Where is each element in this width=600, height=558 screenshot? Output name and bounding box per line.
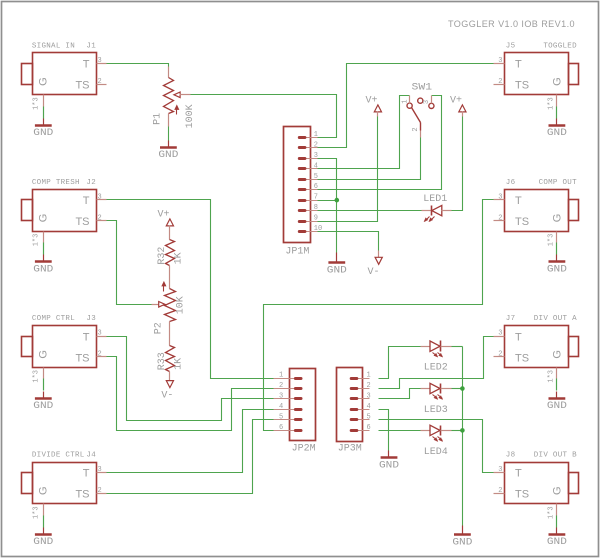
svg-text:GND: GND: [547, 127, 567, 139]
svg-text:G: G: [38, 350, 50, 359]
svg-text:R33: R33: [157, 352, 168, 370]
svg-text:5: 5: [314, 173, 318, 181]
svg-text:2: 2: [498, 78, 502, 86]
svg-text:G: G: [551, 77, 563, 86]
svg-text:3: 3: [498, 193, 502, 201]
svg-text:2: 2: [279, 382, 283, 390]
svg-text:TOGGLED: TOGGLED: [543, 43, 577, 51]
svg-text:G: G: [38, 486, 50, 495]
svg-text:1*3: 1*3: [548, 370, 556, 383]
svg-text:G: G: [38, 214, 50, 223]
svg-text:T: T: [83, 195, 90, 207]
svg-text:2: 2: [367, 382, 371, 390]
svg-text:3: 3: [367, 393, 371, 401]
svg-text:9: 9: [314, 215, 318, 223]
svg-text:TS: TS: [515, 352, 529, 364]
svg-text:1*3: 1*3: [548, 506, 556, 519]
svg-text:10K: 10K: [175, 296, 186, 314]
svg-text:J1: J1: [86, 43, 96, 51]
svg-text:1: 1: [367, 372, 371, 380]
svg-text:TS: TS: [515, 216, 529, 228]
svg-text:6: 6: [367, 424, 371, 432]
svg-text:T: T: [515, 59, 522, 71]
svg-text:1: 1: [401, 99, 409, 103]
svg-text:7: 7: [314, 194, 318, 202]
svg-text:GND: GND: [327, 264, 347, 276]
svg-text:J8: J8: [506, 452, 516, 460]
svg-text:JP2M: JP2M: [292, 444, 316, 455]
svg-text:GND: GND: [452, 537, 472, 549]
svg-text:LED1: LED1: [423, 194, 447, 205]
svg-text:TS: TS: [75, 352, 89, 364]
svg-text:3: 3: [423, 100, 431, 104]
svg-text:T: T: [515, 331, 522, 343]
svg-text:V+: V+: [450, 96, 462, 107]
svg-text:3: 3: [314, 152, 318, 160]
svg-text:1: 1: [314, 131, 318, 139]
svg-text:GND: GND: [547, 264, 567, 276]
svg-text:COMP OUT: COMP OUT: [539, 179, 578, 187]
svg-text:3: 3: [498, 466, 502, 474]
svg-text:TS: TS: [515, 489, 529, 501]
svg-text:J7: J7: [506, 315, 516, 323]
svg-text:2: 2: [98, 214, 102, 222]
svg-text:V+: V+: [365, 96, 377, 107]
svg-text:3: 3: [98, 193, 102, 201]
svg-text:100K: 100K: [185, 104, 196, 128]
svg-text:GND: GND: [33, 127, 53, 139]
svg-text:P2: P2: [153, 322, 164, 334]
svg-text:TS: TS: [75, 216, 89, 228]
svg-text:1*3: 1*3: [33, 234, 41, 247]
svg-text:P1: P1: [153, 113, 164, 125]
svg-text:G: G: [551, 486, 563, 495]
svg-text:3: 3: [498, 330, 502, 338]
svg-text:1: 1: [279, 372, 283, 380]
svg-text:LED3: LED3: [424, 405, 448, 416]
svg-text:DIVIDE CTRL: DIVIDE CTRL: [32, 452, 85, 460]
svg-text:TOGGLER V1.0 IOB REV1.0: TOGGLER V1.0 IOB REV1.0: [448, 19, 575, 29]
svg-text:T: T: [83, 59, 90, 71]
svg-text:2: 2: [98, 78, 102, 86]
svg-text:COMP TRESH: COMP TRESH: [32, 179, 80, 187]
svg-text:TS: TS: [75, 80, 89, 92]
svg-text:2: 2: [498, 214, 502, 222]
svg-text:TS: TS: [515, 80, 529, 92]
svg-text:1K: 1K: [174, 358, 185, 370]
svg-text:T: T: [83, 468, 90, 480]
svg-text:GND: GND: [158, 149, 178, 161]
svg-text:J6: J6: [506, 179, 516, 187]
svg-text:10: 10: [314, 225, 322, 233]
svg-text:5: 5: [279, 414, 283, 422]
svg-text:J2: J2: [86, 179, 96, 187]
svg-text:COMP CTRL: COMP CTRL: [32, 315, 75, 323]
svg-text:3: 3: [279, 393, 283, 401]
svg-text:1*3: 1*3: [548, 234, 556, 247]
svg-text:GND: GND: [33, 400, 53, 412]
svg-text:LED4: LED4: [424, 447, 448, 458]
svg-text:TS: TS: [75, 489, 89, 501]
svg-text:4: 4: [314, 162, 318, 170]
svg-text:GND: GND: [33, 264, 53, 276]
svg-text:2: 2: [498, 351, 502, 359]
svg-text:1K: 1K: [174, 252, 185, 264]
svg-text:G: G: [551, 350, 563, 359]
svg-text:2: 2: [314, 141, 318, 149]
svg-text:G: G: [551, 214, 563, 223]
svg-text:3: 3: [98, 330, 102, 338]
svg-text:V-: V-: [161, 390, 173, 401]
svg-text:2: 2: [98, 487, 102, 495]
svg-text:1*3: 1*3: [548, 97, 556, 110]
svg-text:1*3: 1*3: [33, 370, 41, 383]
svg-text:1*3: 1*3: [33, 506, 41, 519]
svg-text:8: 8: [314, 204, 318, 212]
svg-text:J3: J3: [86, 315, 96, 323]
svg-text:T: T: [515, 195, 522, 207]
svg-text:JP1M: JP1M: [285, 247, 309, 258]
svg-text:6: 6: [314, 183, 318, 191]
svg-text:3: 3: [498, 57, 502, 65]
svg-text:V-: V-: [367, 267, 379, 278]
svg-text:J5: J5: [506, 43, 516, 51]
svg-text:2: 2: [98, 351, 102, 359]
svg-text:GND: GND: [33, 536, 53, 548]
svg-text:G: G: [38, 77, 50, 86]
svg-text:DIV OUT B: DIV OUT B: [534, 452, 577, 460]
svg-text:GND: GND: [547, 400, 567, 412]
svg-text:2: 2: [498, 487, 502, 495]
svg-text:T: T: [515, 468, 522, 480]
svg-text:T: T: [83, 331, 90, 343]
svg-text:GND: GND: [547, 536, 567, 548]
svg-text:GND: GND: [379, 460, 399, 472]
svg-text:DIV OUT A: DIV OUT A: [534, 315, 577, 323]
svg-text:2: 2: [412, 127, 420, 131]
svg-text:JP3M: JP3M: [338, 444, 362, 455]
svg-text:J4: J4: [86, 452, 96, 460]
svg-text:4: 4: [279, 403, 283, 411]
svg-text:1*3: 1*3: [33, 97, 41, 110]
svg-text:V+: V+: [157, 210, 169, 221]
svg-text:4: 4: [367, 403, 371, 411]
svg-text:SW1: SW1: [412, 83, 433, 94]
svg-text:SIGNAL IN: SIGNAL IN: [32, 43, 75, 51]
svg-text:3: 3: [98, 466, 102, 474]
svg-text:LED2: LED2: [424, 363, 448, 374]
svg-text:R32: R32: [157, 247, 168, 265]
svg-text:3: 3: [98, 57, 102, 65]
svg-text:5: 5: [367, 414, 371, 422]
svg-text:6: 6: [279, 424, 283, 432]
